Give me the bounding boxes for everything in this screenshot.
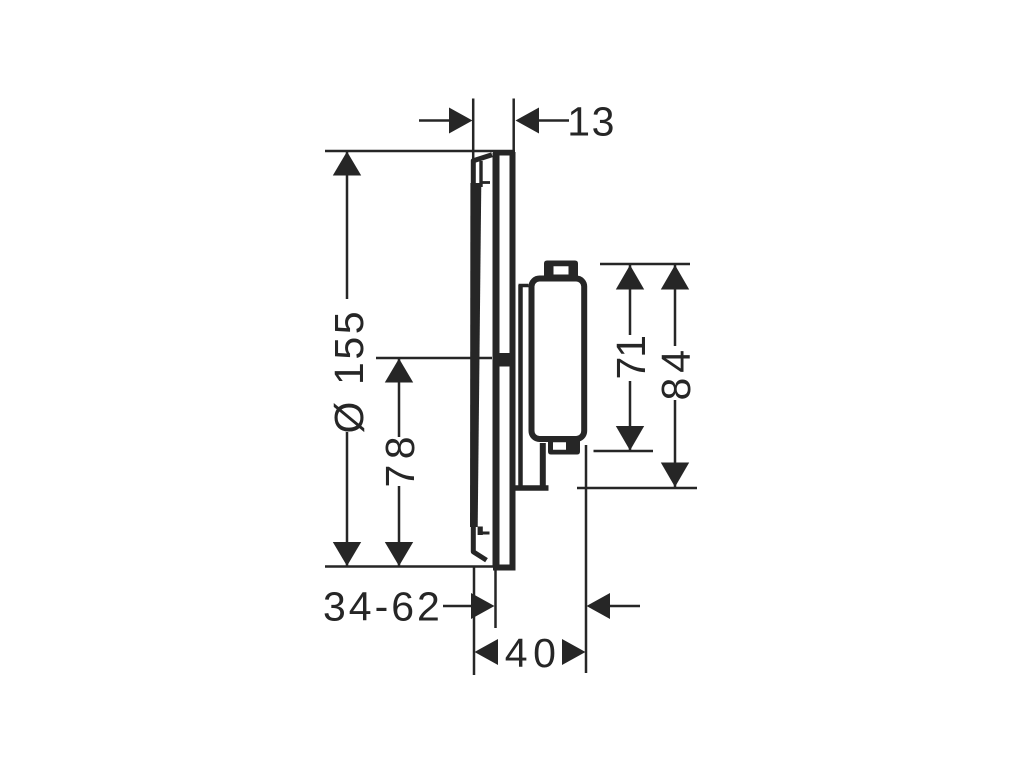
svg-text:71: 71: [608, 336, 654, 380]
svg-text:13: 13: [567, 98, 616, 144]
svg-text:84: 84: [653, 345, 699, 401]
svg-text:Ø 155: Ø 155: [326, 309, 372, 434]
svg-text:78: 78: [377, 431, 423, 488]
svg-text:40: 40: [505, 630, 562, 676]
svg-text:34-62: 34-62: [323, 584, 443, 630]
